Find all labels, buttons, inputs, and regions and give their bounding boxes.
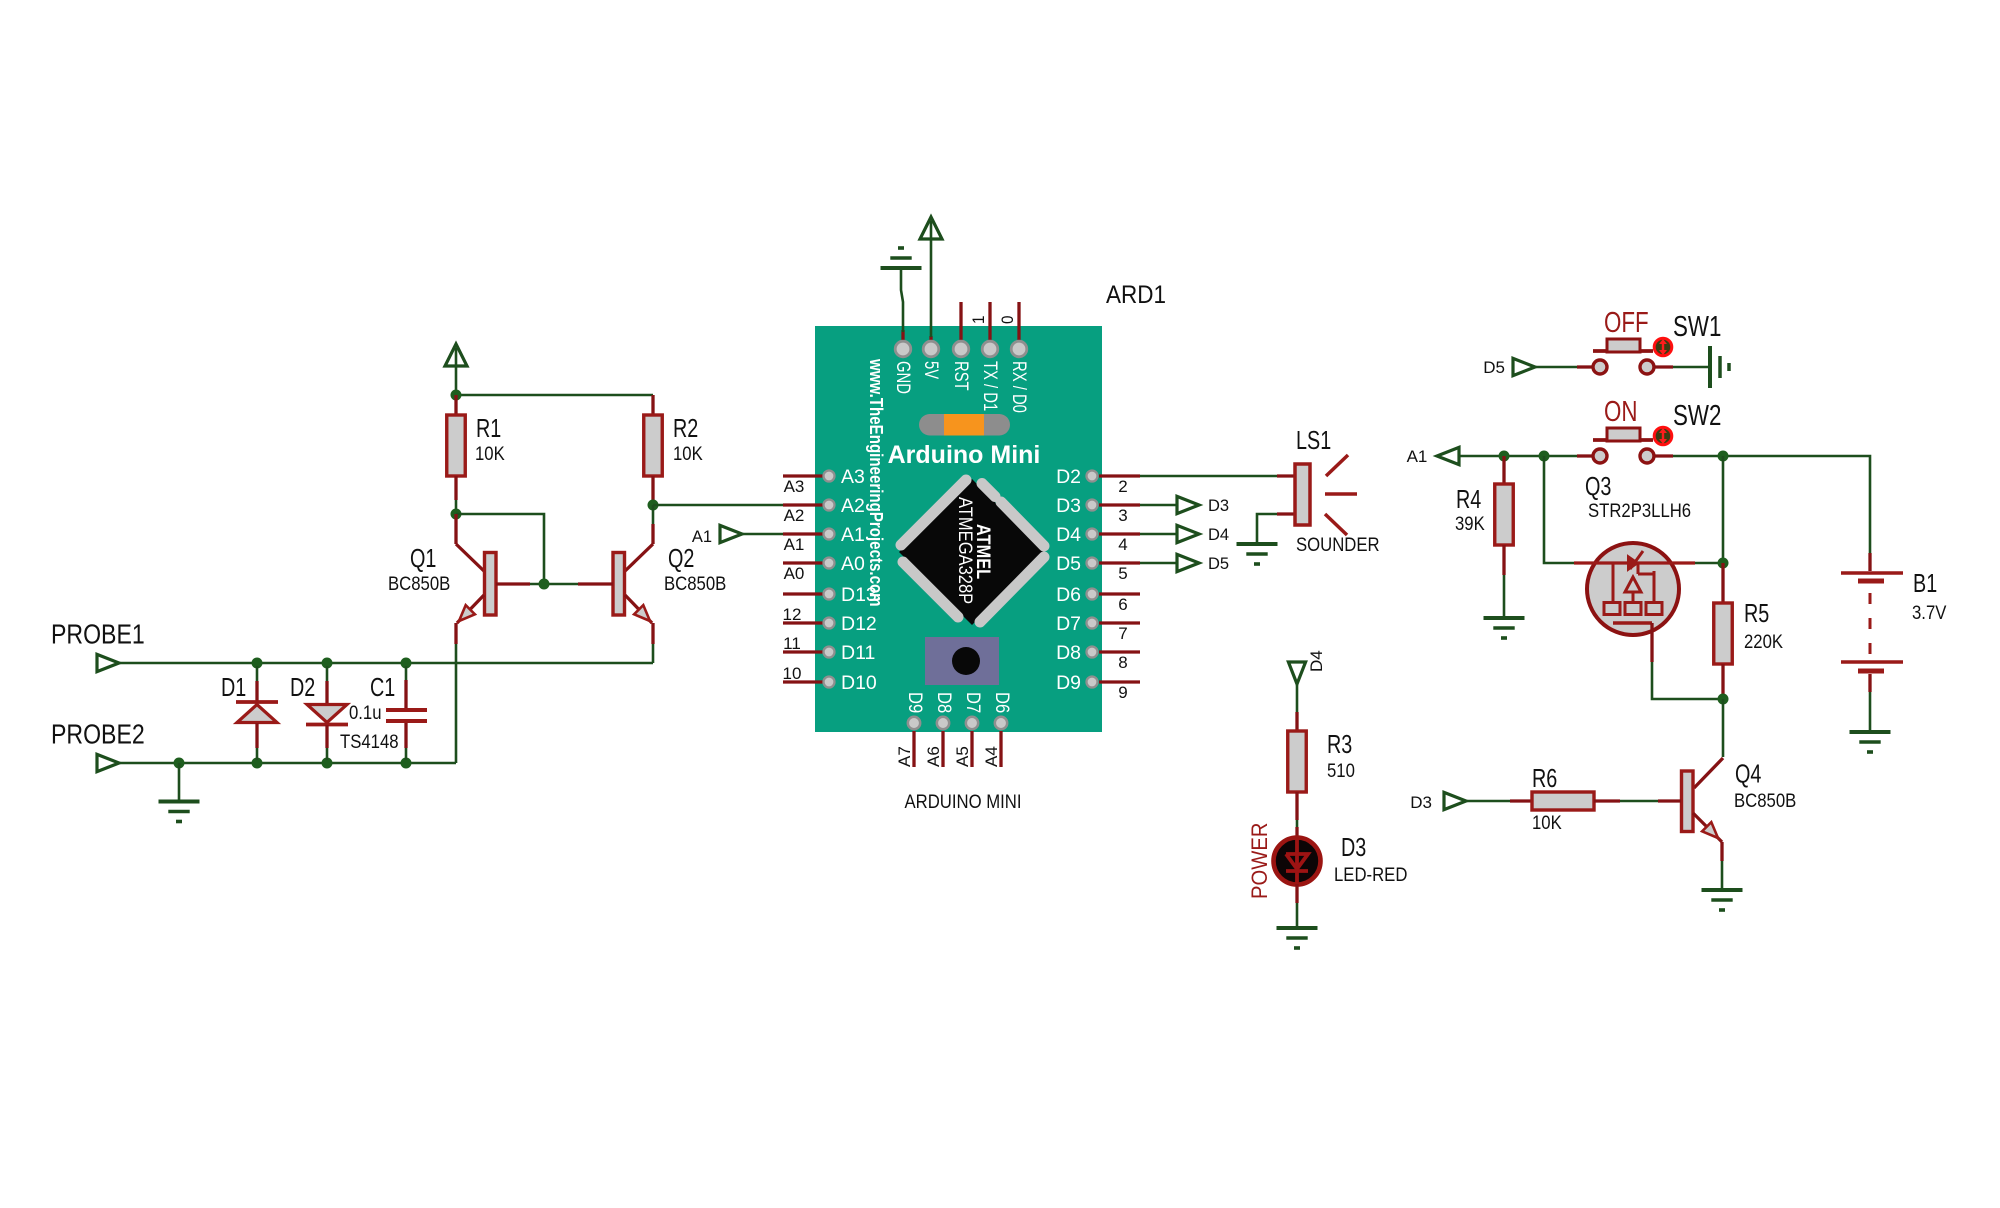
- label D3 (LED): [1341, 832, 1366, 862]
- wire Q4 emitter to ground: [1721, 861, 1724, 889]
- label D1: [221, 672, 246, 702]
- battery B1 3.7V: [1841, 553, 1903, 692]
- svg-text:0: 0: [998, 316, 1017, 325]
- svg-text:C1: C1: [370, 672, 395, 702]
- svg-text:D3: D3: [1056, 495, 1081, 517]
- label Q3: [1585, 471, 1611, 501]
- diode D2 TS4148: [306, 666, 348, 760]
- label PROBE1: [51, 619, 145, 650]
- svg-text:1: 1: [969, 316, 988, 325]
- junction PROBE2/D2: [322, 758, 333, 769]
- right pin names on board: [1056, 466, 1081, 694]
- label 39K (R4): [1455, 514, 1485, 535]
- svg-text:7: 7: [1118, 624, 1127, 643]
- sounder LS1: [1277, 455, 1357, 535]
- ground at R4: [1484, 618, 1525, 638]
- wire top rail R1-R2: [456, 394, 653, 397]
- Arduino Mini board ARD1: [815, 326, 1102, 732]
- left pin stubs A3-D10: [783, 476, 824, 682]
- svg-text:510: 510: [1327, 761, 1355, 782]
- svg-text:Q1: Q1: [410, 543, 436, 573]
- label ARD1: [1106, 281, 1166, 309]
- terminal D3 (Arduino): [1140, 496, 1199, 513]
- label D4 net (rotated): [1307, 650, 1326, 672]
- label 3.7V: [1912, 603, 1947, 624]
- svg-text:OFF: OFF: [1604, 307, 1649, 339]
- ground at B1: [1850, 732, 1891, 752]
- label SW1: [1673, 311, 1721, 343]
- wire Q3 gate: [1544, 456, 1574, 563]
- svg-text:D6: D6: [991, 692, 1013, 713]
- label 510 (R3): [1327, 761, 1355, 782]
- ground at LED: [1277, 928, 1318, 948]
- label net A6: [924, 746, 943, 767]
- label 0.1u (C1): [349, 703, 382, 724]
- label SW2: [1673, 400, 1721, 432]
- label B1: [1913, 568, 1937, 598]
- svg-text:5V: 5V: [920, 361, 941, 379]
- label A1 (SW2 row): [1407, 447, 1428, 466]
- ground at sounder: [1237, 544, 1278, 564]
- pin TX/D1 stub: [988, 302, 991, 343]
- svg-text:D2: D2: [1056, 466, 1081, 488]
- svg-text:D9: D9: [1056, 672, 1081, 694]
- terminal D3 (R6): [1444, 792, 1466, 809]
- MOSFET Q3 STR2P3LLH6: [1574, 543, 1695, 662]
- svg-text:D4: D4: [1307, 650, 1326, 672]
- svg-text:R4: R4: [1456, 484, 1481, 514]
- svg-text:R2: R2: [673, 413, 698, 443]
- svg-text:D7: D7: [1056, 613, 1081, 635]
- svg-text:D5: D5: [1483, 358, 1505, 377]
- svg-text:A7: A7: [895, 746, 914, 767]
- label net 0: [998, 316, 1017, 325]
- svg-text:D3: D3: [1341, 832, 1366, 862]
- resistor R3: [1288, 712, 1307, 841]
- svg-text:B1: B1: [1913, 568, 1937, 598]
- svg-text:ON: ON: [1604, 396, 1638, 428]
- svg-text:D5: D5: [1208, 555, 1229, 573]
- label D5 terminal (Arduino): [1208, 555, 1229, 573]
- svg-text:2: 2: [1118, 477, 1127, 496]
- label R3: [1327, 729, 1352, 759]
- svg-text:BC850B: BC850B: [388, 574, 450, 595]
- power terminal 5V: [920, 217, 942, 337]
- svg-text:TS4148: TS4148: [340, 732, 399, 753]
- junction A1/Q3 gate: [1539, 451, 1550, 462]
- svg-text:A2: A2: [841, 495, 865, 517]
- svg-text:10K: 10K: [673, 444, 703, 465]
- svg-text:www.TheEngineeringProjects.com: www.TheEngineeringProjects.com: [866, 358, 886, 606]
- svg-text:D4: D4: [1208, 526, 1229, 544]
- svg-text:D5: D5: [1056, 553, 1081, 575]
- svg-text:ARD1: ARD1: [1106, 281, 1166, 309]
- wire D2 to sounder: [1140, 475, 1277, 478]
- ground at Q4: [1702, 890, 1743, 910]
- terminal D5 (switch SW1): [1513, 358, 1535, 375]
- svg-text:5: 5: [1118, 564, 1127, 583]
- wire sounder bottom to ground: [1257, 514, 1277, 543]
- transistor Q1 BC850B: [456, 514, 530, 644]
- resistor R2: [644, 395, 663, 505]
- right pin stubs D2-D9: [1099, 476, 1140, 682]
- wire battery to ground: [1869, 692, 1872, 731]
- svg-text:D1: D1: [221, 672, 246, 702]
- svg-text:D11: D11: [841, 642, 875, 664]
- label ON: [1604, 396, 1638, 428]
- board watermark text: [866, 358, 886, 606]
- pin GND stub: [901, 330, 904, 343]
- label BC850B (Q2): [664, 574, 726, 595]
- wire D3 to R6: [1466, 800, 1510, 803]
- label Q4: [1735, 759, 1761, 789]
- svg-text:R5: R5: [1744, 598, 1769, 628]
- svg-text:A1: A1: [1407, 447, 1428, 466]
- label LS1: [1296, 425, 1331, 455]
- svg-text:A1: A1: [784, 535, 805, 554]
- LED D3 red: [1274, 838, 1321, 885]
- label STR2P3LLH6: [1588, 501, 1691, 522]
- svg-text:D3: D3: [1208, 497, 1229, 515]
- junction R2 bottom / Q2 collector / A2 wire: [648, 500, 659, 511]
- svg-text:D8: D8: [933, 692, 955, 713]
- label PROBE2: [51, 719, 145, 750]
- label POWER (rotated): [1247, 823, 1272, 900]
- svg-text:10K: 10K: [1532, 813, 1562, 834]
- svg-text:D7: D7: [962, 692, 984, 713]
- label net 12: [783, 605, 802, 624]
- switch SW1 OFF: [1577, 338, 1673, 374]
- svg-text:ATMEGA328P: ATMEGA328P: [954, 497, 975, 604]
- wire SW2 to battery: [1673, 456, 1870, 553]
- svg-text:ARDUINO MINI: ARDUINO MINI: [905, 792, 1022, 813]
- label R4: [1456, 484, 1481, 514]
- label ARDUINO MINI: [905, 792, 1022, 813]
- label net A2: [784, 506, 805, 525]
- resistor R6 10K: [1510, 792, 1658, 810]
- svg-text:9: 9: [1118, 683, 1127, 702]
- svg-text:A0: A0: [784, 564, 805, 583]
- wire PROBE1: [119, 662, 653, 665]
- wire PROBE2: [119, 762, 456, 765]
- junction drain/R5: [1718, 558, 1729, 569]
- wire Q1-Q2 base link: [530, 583, 578, 586]
- svg-text:GND: GND: [892, 361, 913, 394]
- label A1 terminal: [692, 528, 712, 546]
- wire D4 to R3: [1296, 684, 1299, 712]
- label R6: [1532, 763, 1557, 793]
- wire Q3 drain to R5 node: [1693, 562, 1723, 565]
- wire SW1 to ground flag: [1673, 366, 1708, 369]
- right pin numbers 2-9: [1118, 477, 1127, 702]
- label TS4148 (D2): [340, 732, 399, 753]
- svg-text:BC850B: BC850B: [1734, 791, 1796, 812]
- label Q1: [410, 543, 436, 573]
- svg-text:Arduino Mini: Arduino Mini: [888, 441, 1041, 469]
- resistor R5: [1714, 563, 1733, 699]
- label BC850B (Q1): [388, 574, 450, 595]
- wire A2 net to Arduino: [653, 504, 783, 507]
- svg-text:Q2: Q2: [668, 543, 694, 573]
- pin RX/D0 stub: [1017, 302, 1020, 343]
- label D5 (SW1): [1483, 358, 1505, 377]
- svg-text:A4: A4: [982, 746, 1001, 767]
- left pin pads: [824, 471, 835, 688]
- junction PROBE2/D1: [252, 758, 263, 769]
- svg-text:D10: D10: [841, 672, 877, 694]
- terminal PROBE2: [97, 754, 119, 771]
- label Q2: [668, 543, 694, 573]
- terminal A1 (left arrow): [1437, 447, 1459, 464]
- svg-text:A5: A5: [953, 746, 972, 767]
- svg-text:LS1: LS1: [1296, 425, 1331, 455]
- junction PROBE1/C1: [401, 658, 412, 669]
- label net A5: [953, 746, 972, 767]
- svg-text:3.7V: 3.7V: [1912, 603, 1947, 624]
- label 220K (R5): [1744, 632, 1783, 653]
- svg-text:D8: D8: [1056, 642, 1081, 664]
- junction SW2/Q3 drain: [1718, 451, 1729, 462]
- label 10K (R1): [475, 444, 505, 465]
- ground above GND pin (inverted): [881, 248, 922, 268]
- wire LED to ground: [1295, 884, 1298, 927]
- svg-text:A3: A3: [841, 466, 865, 488]
- svg-text:4: 4: [1118, 535, 1127, 554]
- wire Q2 emitter to PROBE1 net: [652, 644, 655, 663]
- svg-text:A6: A6: [924, 746, 943, 767]
- terminal D5 (Arduino): [1140, 554, 1199, 571]
- left pin names on board: [841, 466, 877, 694]
- junction PROBE1/D1: [252, 658, 263, 669]
- label net 1: [969, 316, 988, 325]
- board title Arduino Mini: [888, 441, 1041, 469]
- ground (rotated) at SW1: [1710, 346, 1729, 388]
- junction A1/R4: [1499, 451, 1510, 462]
- label ATMEGA328P: [954, 497, 975, 604]
- svg-text:3: 3: [1118, 506, 1127, 525]
- transistor Q2 BC850B: [578, 505, 653, 644]
- label net A1: [784, 535, 805, 554]
- label ATMEL: [972, 524, 993, 579]
- switch SW2 ON: [1577, 427, 1673, 463]
- pin RST stub: [959, 302, 962, 343]
- resistor R1: [447, 395, 466, 514]
- svg-text:6: 6: [1118, 595, 1127, 614]
- svg-text:12: 12: [783, 605, 802, 624]
- svg-text:10K: 10K: [475, 444, 505, 465]
- junction source/R5/Q4: [1718, 694, 1729, 705]
- svg-text:A0: A0: [841, 553, 865, 575]
- terminal PROBE1: [97, 654, 119, 671]
- svg-text:D6: D6: [1056, 584, 1081, 606]
- label BC850B (Q4): [1734, 791, 1796, 812]
- svg-text:RX / D0: RX / D0: [1008, 361, 1029, 413]
- svg-text:PROBE2: PROBE2: [51, 719, 145, 750]
- svg-text:LED-RED: LED-RED: [1334, 865, 1407, 886]
- wire GND to ground symbol: [901, 268, 903, 332]
- label LED-RED: [1334, 865, 1407, 886]
- wire Q1 collector-base tie: [456, 514, 544, 584]
- ground at PROBE2: [159, 763, 200, 822]
- IC ATMEGA328P diamond: [899, 479, 1044, 625]
- svg-text:D12: D12: [841, 613, 877, 635]
- label net A4: [982, 746, 1001, 767]
- svg-text:POWER: POWER: [1247, 823, 1272, 900]
- junction R1 bottom / Q1 collector: [451, 509, 462, 520]
- junction PROBE2/C1: [401, 758, 412, 769]
- svg-text:A1: A1: [841, 524, 865, 546]
- svg-text:RST: RST: [950, 361, 971, 391]
- junction top rail at R1: [451, 390, 462, 401]
- bottom pin pads: [908, 717, 1007, 729]
- wire Q3 source to R5 bottom: [1652, 662, 1723, 699]
- label D3 (R6 row): [1410, 793, 1432, 812]
- fuse component on board: [919, 414, 1010, 436]
- label R1: [476, 413, 501, 443]
- label R2: [673, 413, 698, 443]
- svg-text:R6: R6: [1532, 763, 1557, 793]
- power terminal +V (left rail): [445, 344, 467, 395]
- label net A3: [784, 477, 805, 496]
- top pin pads: [895, 341, 1027, 357]
- junction base link: [539, 579, 550, 590]
- svg-text:A3: A3: [784, 477, 805, 496]
- label OFF: [1604, 307, 1649, 339]
- svg-text:D2: D2: [290, 672, 315, 702]
- label 10K (R6): [1532, 813, 1562, 834]
- transistor Q4 BC850B: [1658, 758, 1723, 861]
- svg-text:D4: D4: [1056, 524, 1081, 546]
- capacitor C1 0.1u: [386, 666, 427, 760]
- svg-text:0.1u: 0.1u: [349, 703, 382, 724]
- reset button on board: [925, 637, 999, 685]
- svg-text:TX / D1: TX / D1: [979, 361, 1000, 411]
- svg-text:A1: A1: [692, 528, 712, 546]
- svg-text:D3: D3: [1410, 793, 1432, 812]
- wire drain node down: [1722, 456, 1725, 563]
- label net 10: [783, 664, 802, 683]
- label 10K (R2): [673, 444, 703, 465]
- svg-text:8: 8: [1118, 653, 1127, 672]
- junction PROBE1/D2: [322, 658, 333, 669]
- wire A1 to SW2: [1459, 455, 1577, 458]
- svg-text:11: 11: [783, 634, 801, 653]
- label D3 terminal (Arduino): [1208, 497, 1229, 515]
- top pin names GND 5V RST TX RX: [892, 361, 1029, 413]
- right pin pads: [1087, 471, 1098, 688]
- svg-text:A2: A2: [784, 506, 805, 525]
- wire to Q4 collector: [1722, 699, 1725, 757]
- svg-text:Q3: Q3: [1585, 471, 1611, 501]
- svg-text:SOUNDER: SOUNDER: [1296, 535, 1380, 556]
- wire D5 to SW1: [1535, 366, 1577, 369]
- svg-text:R1: R1: [476, 413, 501, 443]
- diode D1: [236, 666, 278, 760]
- bottom pin stubs D9-D6: [914, 731, 1001, 767]
- resistor R4: [1495, 456, 1514, 617]
- svg-text:D13: D13: [841, 584, 877, 606]
- label C1: [370, 672, 395, 702]
- wire Q1 emitter to PROBE2 net (crosses PROBE1): [455, 644, 458, 763]
- junction PROBE2/ground: [174, 758, 185, 769]
- svg-text:STR2P3LLH6: STR2P3LLH6: [1588, 501, 1691, 522]
- svg-text:SW2: SW2: [1673, 400, 1721, 432]
- svg-text:Q4: Q4: [1735, 759, 1761, 789]
- svg-text:BC850B: BC850B: [664, 574, 726, 595]
- svg-text:10: 10: [783, 664, 802, 683]
- pin 5V stub: [929, 336, 932, 343]
- label D2: [290, 672, 315, 702]
- terminal D4 (Arduino): [1140, 525, 1199, 542]
- svg-text:PROBE1: PROBE1: [51, 619, 145, 650]
- label net A7: [895, 746, 914, 767]
- label D4 terminal (Arduino): [1208, 526, 1229, 544]
- label net 11: [783, 634, 801, 653]
- svg-text:SW1: SW1: [1673, 311, 1721, 343]
- svg-text:39K: 39K: [1455, 514, 1485, 535]
- terminal D4 (LED chain, down arrow): [1288, 662, 1305, 684]
- svg-text:220K: 220K: [1744, 632, 1783, 653]
- terminal A1 (to Arduino): [720, 525, 783, 542]
- label R5: [1744, 598, 1769, 628]
- label SOUNDER: [1296, 535, 1380, 556]
- label net A0: [784, 564, 805, 583]
- svg-text:R3: R3: [1327, 729, 1352, 759]
- bottom pin names on board: [904, 692, 1013, 713]
- svg-text:D9: D9: [904, 692, 926, 713]
